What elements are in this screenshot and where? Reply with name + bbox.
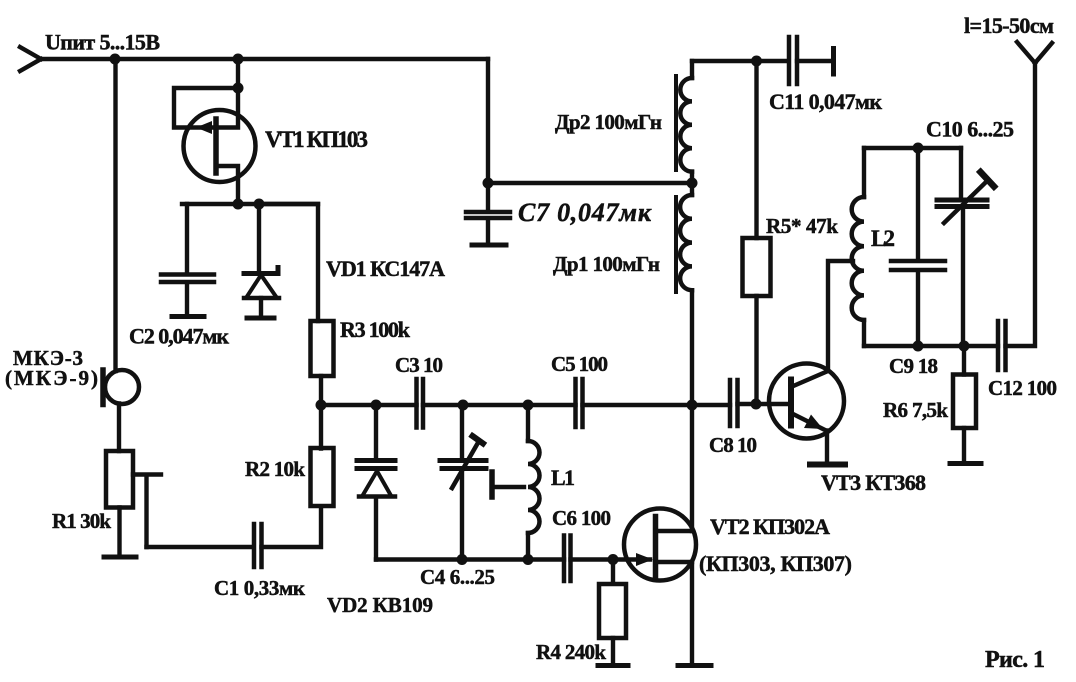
resistor R2 bbox=[311, 448, 334, 506]
terminal bar under C2 bbox=[172, 314, 204, 319]
wire VT2 source down bbox=[690, 562, 694, 661]
wire bottom left to C1 bbox=[147, 545, 254, 549]
wire C3 to C5 bbox=[423, 403, 576, 407]
variable capacitor C10 bbox=[937, 148, 994, 346]
terminal bar under VD1 bbox=[247, 316, 274, 321]
svg-text:С5 100: С5 100 bbox=[551, 352, 608, 376]
wire choke top to C11 bbox=[692, 59, 788, 63]
capacitor C2 bbox=[161, 204, 214, 314]
node junction VT1 gate loop bbox=[233, 83, 244, 94]
wire C6 to VT2 gate bbox=[571, 557, 651, 561]
svg-text:VT1 КП103: VT1 КП103 bbox=[265, 127, 368, 152]
wire R1 bottom bbox=[117, 508, 121, 557]
wire left branch down to microphone bbox=[113, 59, 117, 371]
node junction C4 bottom bbox=[457, 554, 468, 565]
svg-text:Др2 100мГн: Др2 100мГн bbox=[555, 110, 662, 134]
node junction choke midpoint bbox=[687, 178, 698, 189]
svg-text:С11 0,047мк: С11 0,047мк bbox=[769, 89, 882, 114]
svg-text:VT3 КТ368: VT3 КТ368 bbox=[821, 470, 926, 495]
node junction L1 bottom bbox=[523, 554, 534, 565]
svg-text:R4 240k: R4 240k bbox=[536, 640, 606, 664]
wire supply drop to C7 node bbox=[486, 59, 490, 183]
svg-text:С10 6...25: С10 6...25 bbox=[926, 117, 1014, 142]
node junction left branch bbox=[110, 54, 121, 65]
svg-text:С8 10: С8 10 bbox=[709, 433, 757, 457]
svg-text:Др1 100мГн: Др1 100мГн bbox=[553, 252, 660, 276]
node junction C7 bbox=[483, 178, 494, 189]
capacitor C7 bbox=[466, 183, 510, 243]
transistor VT2 bbox=[624, 509, 696, 581]
capacitor C3 bbox=[417, 379, 424, 428]
node junction R2R3 bbox=[316, 400, 327, 411]
capacitor C6 bbox=[564, 536, 571, 582]
wire C11 to terminal bbox=[797, 59, 831, 63]
svg-text:С1 0,33мк: С1 0,33мк bbox=[214, 576, 306, 600]
wire VT3 emitter down bbox=[825, 431, 829, 463]
terminal bar under R6 bbox=[950, 461, 981, 466]
wire R3 bottom to node bbox=[319, 376, 323, 405]
terminal bar right of C11 bbox=[831, 49, 836, 75]
node junction R4 bbox=[608, 554, 619, 565]
svg-text:R3 100k: R3 100k bbox=[340, 317, 411, 342]
capacitor C5 bbox=[576, 379, 583, 427]
node junction R5 bottom bbox=[751, 399, 762, 410]
node junction C9 bottom bbox=[913, 341, 924, 352]
capacitor C12 bbox=[998, 321, 1006, 370]
wire R2 top to node bbox=[319, 405, 323, 449]
resistor R6 bbox=[953, 346, 976, 461]
wire oscillator bottom rail bbox=[376, 557, 564, 561]
terminal bar under C7 bbox=[472, 243, 506, 248]
resistor R4 bbox=[599, 560, 626, 663]
svg-text:С2 0,047мк: С2 0,047мк bbox=[129, 324, 229, 349]
wire output bottom rail bbox=[864, 344, 998, 348]
wire top supply rail bbox=[41, 57, 488, 61]
terminal bar under R1 bbox=[104, 555, 136, 560]
node junction C9 top bbox=[913, 143, 924, 154]
svg-text:С7 0,047мк: С7 0,047мк bbox=[518, 198, 652, 227]
terminal bar under R4 bbox=[598, 663, 628, 668]
node junction drain column bbox=[687, 400, 698, 411]
ground bar under VT3 bbox=[810, 462, 845, 468]
svg-text:L1: L1 bbox=[551, 465, 575, 490]
svg-text:R2 10k: R2 10k bbox=[245, 457, 305, 481]
terminal bar under VT2 bbox=[678, 663, 711, 668]
choke Dr1 bbox=[676, 183, 692, 405]
wire C1 to R2 bottom bbox=[262, 507, 322, 548]
wire C5 to C8 bbox=[583, 403, 731, 407]
node junction at VT1 source bbox=[233, 199, 244, 210]
input terminal chevron bbox=[20, 47, 41, 71]
wire R3 top feed bbox=[259, 204, 318, 321]
capacitor C11 bbox=[789, 37, 797, 84]
svg-text:Uпит 5...15В: Uпит 5...15В bbox=[45, 30, 160, 55]
resistor R5 bbox=[743, 61, 771, 404]
wire VT1 source node bbox=[182, 202, 318, 206]
svg-text:(КП303, КП307): (КП303, КП307) bbox=[699, 551, 852, 576]
svg-text:VD1 КС147А: VD1 КС147А bbox=[326, 256, 445, 281]
variable capacitor C4 bbox=[440, 405, 486, 560]
resistor R3 bbox=[311, 321, 334, 376]
inductor L1 bbox=[528, 405, 540, 560]
capacitor C9 bbox=[891, 148, 945, 346]
wire R1 tap bbox=[133, 475, 161, 548]
svg-text:VD2 КВ109: VD2 КВ109 bbox=[327, 593, 433, 617]
wire VT2 drain column bbox=[690, 405, 694, 531]
capacitor C8 bbox=[730, 380, 738, 426]
wire microphone to R1 bbox=[117, 404, 121, 452]
svg-text:С4 6...25: С4 6...25 bbox=[420, 565, 495, 589]
wire C7 node horizontal bbox=[488, 181, 692, 185]
svg-text:VT2 КП302А: VT2 КП302А bbox=[710, 514, 830, 539]
node junction R6 top bbox=[959, 341, 970, 352]
svg-text:Рис. 1: Рис. 1 bbox=[985, 647, 1045, 673]
svg-text:R6 7,5k: R6 7,5k bbox=[883, 398, 948, 422]
resistor R1 bbox=[106, 451, 133, 508]
svg-text:С12 100: С12 100 bbox=[988, 376, 1057, 400]
node junction at VD1 top bbox=[254, 199, 265, 210]
varicap VD2 bbox=[357, 405, 395, 560]
choke Dr2 bbox=[676, 61, 692, 183]
node junction VD2 bbox=[371, 400, 382, 411]
node junction R5 top bbox=[751, 56, 762, 67]
svg-text:l=15-50см: l=15-50см bbox=[964, 13, 1054, 38]
svg-text:R5* 47k: R5* 47k bbox=[766, 214, 838, 238]
node junction C4 bbox=[458, 400, 469, 411]
wire VT3 collector up to L2 tap bbox=[828, 261, 853, 371]
node junction VT1 drop bbox=[233, 54, 244, 65]
L1 tap stub bbox=[492, 472, 524, 497]
svg-text:С6 100: С6 100 bbox=[552, 506, 611, 530]
microphone BM1 МКЭ-3 bbox=[103, 370, 139, 405]
svg-text:L2: L2 bbox=[871, 226, 895, 251]
capacitor C1 bbox=[254, 524, 262, 567]
wire C8 to VT3 base bbox=[738, 402, 789, 406]
wire L2 top rail bbox=[864, 146, 961, 150]
svg-text:С9 18: С9 18 bbox=[889, 354, 938, 378]
node junction L1 bbox=[523, 400, 534, 411]
wire main oscillator node bbox=[321, 403, 417, 407]
antenna bbox=[1017, 42, 1052, 63]
svg-text:С3 10: С3 10 bbox=[395, 353, 443, 377]
inductor L2 bbox=[852, 148, 864, 346]
svg-text:R1 30k: R1 30k bbox=[52, 509, 111, 533]
wire VT1 drop bbox=[236, 59, 240, 88]
transistor VT1 bbox=[174, 88, 256, 204]
zener diode VD1 bbox=[244, 204, 279, 315]
transistor VT3 bbox=[769, 364, 844, 439]
wire C12 to antenna bbox=[1006, 63, 1036, 346]
